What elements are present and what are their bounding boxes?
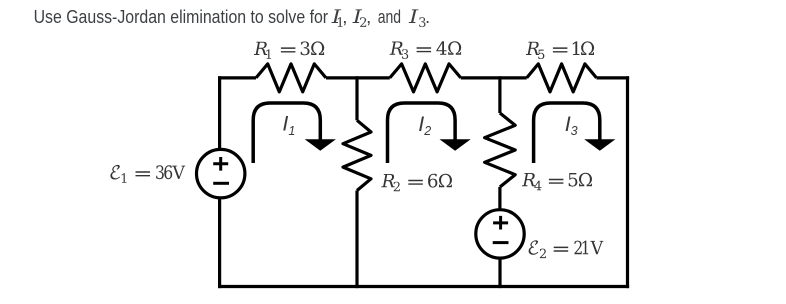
resistor R1: [256, 64, 326, 92]
wire R2 branch bottom: [355, 191, 358, 289]
label R3 = 4Ω: [390, 41, 462, 59]
wire top between R3 and R5: [461, 76, 527, 79]
wire R2 branch top: [355, 76, 358, 120]
wire E2 to bottom: [498, 258, 501, 288]
mesh current arrow I3: [534, 103, 616, 163]
mesh current arrow I2: [388, 103, 471, 163]
wire top-left segment: [218, 76, 256, 79]
svg-text:I1: I1: [282, 112, 295, 138]
svg-text:,: ,: [342, 6, 347, 27]
svg-text:and: and: [378, 6, 401, 27]
wire R4 branch top: [498, 76, 501, 113]
E1 plus sign: [213, 157, 228, 171]
resistor R4: [485, 113, 516, 187]
resistor R5: [527, 64, 597, 92]
svg-text:Use Gauss-Jordan elimination t: Use Gauss-Jordan elimination to solve fo…: [34, 6, 329, 27]
E2 minus sign: [493, 241, 509, 244]
svg-text:I3: I3: [565, 112, 578, 138]
E2 plus sign: [493, 216, 508, 230]
label R5 = 1Ω: [526, 41, 594, 59]
label E1 = 36V: [110, 165, 185, 183]
E1 minus sign: [213, 182, 229, 185]
voltage source E2 circle: [476, 210, 524, 258]
wire top-right segment: [597, 76, 630, 79]
mesh current arrow I1: [253, 103, 336, 163]
label R4 = 5Ω: [522, 173, 592, 191]
wire right: [626, 76, 629, 288]
svg-text:I2: I2: [418, 112, 431, 138]
wire left upper (corner to E1 top): [218, 76, 221, 149]
svg-text:,: ,: [366, 6, 371, 27]
voltage source E1 circle: [197, 149, 245, 197]
resistor R3: [390, 64, 461, 92]
label E2 = 21V: [529, 240, 604, 258]
wire left lower (E1 bottom to corner): [218, 199, 221, 289]
label R2 = 6Ω: [381, 174, 452, 192]
resistor R2: [343, 120, 371, 190]
wire bottom: [218, 285, 629, 288]
wire top between R1 and R3: [326, 76, 390, 79]
title text: [34, 6, 431, 27]
svg-text:.: .: [425, 6, 430, 27]
label R1 = 3Ω: [254, 41, 324, 59]
wire R4 to E2: [498, 187, 501, 210]
